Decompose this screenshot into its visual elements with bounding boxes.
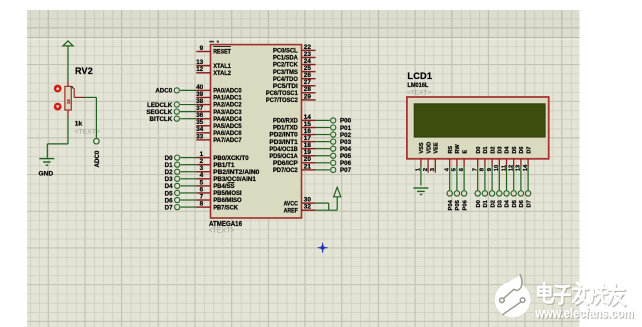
terminal P06 [461,191,468,211]
svg-text:www.elecfans.com: www.elecfans.com [535,306,634,321]
U1 pin 15 (PD1/TXD) [273,121,316,132]
svg-text:PA5/ADC5: PA5/ADC5 [213,123,242,130]
svg-text:D6: D6 [519,199,525,207]
svg-text:2: 2 [423,168,429,171]
svg-text:GND: GND [39,171,54,178]
LCD1 <TEXT> placeholder [407,90,432,97]
RV2 reference label [75,66,93,76]
svg-text:PD2/INT0: PD2/INT0 [269,132,298,139]
svg-text:32: 32 [304,204,312,211]
LCD1 body [407,97,549,159]
U1 pin 25 (PC3/TMS) [273,65,316,76]
LCD1 screen [414,104,545,137]
svg-text:40: 40 [196,84,204,91]
svg-text:33: 33 [196,133,204,140]
terminal D3 [165,176,180,183]
wire U1 pin 37 to terminal SEGCLK [180,111,196,113]
LCD1 pin 4 (RS) [445,146,454,172]
svg-text:BITCLK: BITCLK [150,116,173,123]
svg-text:D6: D6 [165,197,173,204]
terminal BITCLK [150,116,180,123]
terminal D5 [511,191,518,208]
LCD1 pin 12 (D5) [509,146,518,171]
svg-text:38: 38 [196,98,204,105]
svg-text:D7: D7 [526,146,532,153]
LCD1 pin 6 (E) [459,150,468,172]
svg-text:PC5/TDI: PC5/TDI [273,83,298,90]
wire U1 pin 38 to terminal LEDCLK [180,104,196,106]
svg-text:34: 34 [196,126,204,133]
U1 pin 29 (PC7/TOSC2) [266,93,316,104]
svg-text:39: 39 [196,91,204,98]
svg-text:P03: P03 [340,139,352,146]
wire AREF to power rail [316,209,338,211]
wire U1 pin 20 to terminal P06 [316,162,330,164]
svg-text:8: 8 [200,200,204,207]
U1 pin 24 (PC2/TCK) [273,58,316,69]
terminal D0 [475,191,482,208]
wire U1 pin 15 to terminal P01 [316,126,330,128]
svg-text:P05: P05 [455,199,461,210]
svg-text:<TEXT>: <TEXT> [407,90,432,97]
power symbol (AVCC/AREF) [334,187,341,210]
wire LCD1 D1 to terminal D1 [484,167,486,191]
svg-text:4: 4 [200,172,204,179]
svg-text:PC0/SCL: PC0/SCL [273,48,298,55]
svg-text:PB2/INT2/AIN0: PB2/INT2/AIN0 [213,169,260,176]
U1 pin 2 (PB1/T1) [196,158,235,169]
U1 pin 17 (PD3/INT1) [269,135,315,146]
LCD1 pin 14 (D7) [523,146,532,171]
U1 pin 8 (PB7/SCK) [196,200,238,211]
svg-text:1: 1 [200,151,204,158]
terminal P06 [331,160,352,167]
svg-text:16: 16 [66,99,71,104]
U1 pin 30 (AVCC) [284,197,316,208]
U1 part number ATMEGA16 [209,221,242,228]
ground GND (LCD VSS) [413,188,428,195]
svg-text:30: 30 [304,197,312,204]
svg-text:12: 12 [196,66,204,73]
svg-text:3: 3 [200,165,204,172]
svg-text:PC1/SDA: PC1/SDA [273,55,298,62]
svg-text:7: 7 [200,193,204,200]
svg-text:D0: D0 [476,146,482,153]
svg-text:16: 16 [304,128,312,135]
U1 pin 21 (PD7/OC2) [273,163,316,174]
svg-text:PC7/TOSC2: PC7/TOSC2 [266,97,298,104]
svg-text:P04: P04 [340,146,352,153]
U1 pin 23 (PC1/SDA) [273,51,316,62]
svg-text:1k: 1k [75,121,83,128]
svg-text:LM016L: LM016L [407,82,428,89]
wire RV2 bottom to ground [47,117,68,158]
terminal D1 [165,162,180,169]
svg-text:<TEXT>: <TEXT> [208,228,234,235]
U1 pin 34 (PA6/ADC6) [196,126,242,137]
watermark logo (elecfans) [494,274,530,318]
potentiometer RV2 [65,81,84,118]
wire LCD1 D2 to terminal D2 [491,167,493,191]
LCD1 reference label [407,71,432,81]
svg-text:D7: D7 [526,200,532,207]
svg-text:PA2/ADC2: PA2/ADC2 [213,102,242,109]
terminal D7 [165,204,180,211]
U1 pin 40 (PA0/ADC0) [196,84,242,95]
svg-text:P06: P06 [340,160,352,167]
svg-text:27: 27 [304,79,312,86]
svg-text:25: 25 [304,65,312,72]
U1 pin 28 (PC6/TOSC1) [266,86,316,97]
terminal D3 [497,191,504,208]
wire U1 pin 40 to terminal ADC0 [180,89,196,91]
watermark text (Chinese brand, drawn as strokes) [538,283,625,306]
terminal P04 [331,146,352,153]
terminal D0 [165,155,180,162]
U1 pin 35 (PA5/ADC5) [196,119,242,130]
U1 pin 5 (PB4/SS) [196,179,235,190]
svg-text:VSS: VSS [419,142,425,153]
U1 pin 16 (PD2/INT0) [269,128,315,139]
origin marker (blue cross) [318,243,328,253]
U1 pin 9 (RESET) [196,45,231,56]
U1 pin 6 (PB5/MOSI) [196,186,242,197]
terminal P05 [331,153,352,160]
U1 <TEXT> placeholder [208,228,234,235]
wire U1 pin 7 to terminal D6 [181,199,197,201]
RV2 <TEXT> placeholder [75,129,100,136]
svg-text:AVCC: AVCC [284,200,299,207]
svg-text:D4: D4 [505,146,511,154]
svg-text:PD1/TXD: PD1/TXD [273,125,298,132]
wire U1 pin 17 to terminal P03 [316,141,330,143]
U1 pin 37 (PA3/ADC3) [196,105,242,116]
svg-text:LCD1: LCD1 [407,71,432,81]
svg-text:2: 2 [200,158,204,165]
U1 pin 32 (AREF) [284,204,316,215]
U1 pin 12 (XTAL2) [196,66,231,77]
U1 pin 20 (PD6/ICP) [273,156,316,167]
svg-text:29: 29 [304,93,312,100]
terminal D2 [165,169,180,176]
svg-text:VEE: VEE [434,142,440,153]
svg-text:D6: D6 [519,146,525,153]
svg-text:15: 15 [304,121,312,128]
terminal P04 [447,191,454,211]
svg-text:PB7/SCK: PB7/SCK [213,204,238,211]
svg-text:E: E [462,150,468,154]
svg-text:PD6/ICP: PD6/ICP [273,160,299,167]
svg-text:D3: D3 [498,199,504,207]
svg-text:PA4/ADC4: PA4/ADC4 [213,116,242,123]
U1 reference marks above chip [209,41,219,43]
wire U1 pin 19 to terminal P05 [316,155,330,157]
terminal D4 [504,191,511,208]
svg-text:19: 19 [304,149,312,156]
svg-text:D5: D5 [512,199,518,207]
terminal D2 [489,191,496,208]
svg-text:21: 21 [304,163,312,170]
U1 pin 13 (XTAL1) [196,59,231,70]
svg-text:D2: D2 [490,146,496,153]
LCD1 pin 9 (D2) [487,146,496,171]
power symbol (top of RV2) [63,41,73,46]
terminal P05 [454,191,461,211]
terminal D5 [165,190,180,197]
wire U1 pin 36 to terminal BITCLK [180,118,196,120]
LCD1 pin 7 (D0) [473,146,482,171]
svg-text:AREF: AREF [284,207,298,214]
terminal P01 [331,125,352,132]
svg-text:PB1/T1: PB1/T1 [213,162,235,169]
svg-text:PA1/ADC1: PA1/ADC1 [213,95,242,102]
LCD1 pin 3 (VEE) [430,142,439,173]
svg-text:37: 37 [196,105,204,112]
svg-text:D1: D1 [483,199,489,207]
svg-text:SEGCLK: SEGCLK [146,109,172,116]
wire U1 pin 6 to terminal D5 [181,192,197,194]
svg-text:D5: D5 [165,190,173,197]
svg-text:PA7/ADC7: PA7/ADC7 [213,137,242,144]
svg-text:P05: P05 [340,153,352,160]
svg-text:D3: D3 [165,176,173,183]
wire LCD1 RW to terminal P05 [456,167,458,191]
wire U1 pin 2 to terminal D1 [181,164,197,166]
wire RV2 wiper to ADC0 terminal [84,97,96,137]
terminal D6 [518,191,525,208]
LCD1 pin 8 (D1) [480,146,489,171]
svg-text:P07: P07 [340,167,352,174]
U1 pin 27 (PC5/TDI) [273,79,316,90]
svg-text:PB0/XCK/T0: PB0/XCK/T0 [213,155,249,162]
wire U1 pin 14 to terminal P00 [316,119,330,121]
wire LCD1 E to terminal P06 [463,167,465,191]
wire U1 pin 1 to terminal D0 [181,157,197,159]
svg-text:D3: D3 [498,146,504,153]
svg-text:ADC0: ADC0 [155,88,172,95]
svg-text:35: 35 [196,119,204,126]
svg-text:PD0/RXD: PD0/RXD [273,118,298,125]
U1 pin 19 (PD5/OC1A) [269,149,315,160]
svg-text:PB6/MISO: PB6/MISO [213,197,241,204]
svg-text:D4: D4 [165,183,173,190]
U1 pin 38 (PA2/ADC2) [196,98,242,109]
svg-text:PB3/OC0/AIN1: PB3/OC0/AIN1 [213,176,256,183]
terminal SEGCLK [146,109,179,116]
svg-text:D2: D2 [165,169,173,176]
svg-text:PA6/ADC6: PA6/ADC6 [213,130,242,137]
svg-text:VDD: VDD [426,142,432,154]
svg-text:22: 22 [304,44,312,51]
U1 pin 14 (PD0/RXD) [273,114,316,125]
svg-text:PD4/OC1B: PD4/OC1B [269,146,298,153]
svg-text:13: 13 [196,59,204,66]
U1 pin 26 (PC4/TDO) [273,72,316,83]
U1 pin 33 (PA7/ADC7) [196,133,242,144]
svg-text:PC3/TMS: PC3/TMS [273,69,299,76]
U1 pin 1 (PB0/XCK/T0) [196,151,249,162]
svg-text:ADC0: ADC0 [94,150,101,167]
U1 pin 39 (PA1/ADC1) [196,91,242,102]
svg-text:RESET: RESET [213,49,231,56]
terminal ADC0 [155,88,179,95]
svg-text:PD5/OC1A: PD5/OC1A [269,153,298,160]
LCD1 pin 11 (D4) [501,146,510,172]
terminal D7 [525,191,532,208]
svg-text:RW: RW [455,144,461,154]
terminal P07 [331,167,352,174]
RV2 value 1k [75,121,83,128]
U1 pin 18 (PD4/OC1B) [269,142,315,153]
svg-text:P01: P01 [340,125,352,132]
svg-text:RS: RS [448,146,454,154]
svg-text:LEDCLK: LEDCLK [147,102,173,109]
svg-text:XTAL2: XTAL2 [213,70,231,77]
wire U1 pin 3 to terminal D2 [181,171,197,173]
LCD1 part number LM016L [407,82,428,89]
svg-text:D0: D0 [476,200,482,207]
svg-text:36: 36 [196,112,204,119]
svg-text:XTAL1: XTAL1 [213,63,231,70]
svg-text:PC6/TOSC1: PC6/TOSC1 [266,90,298,97]
wire LCD1 D4 to terminal D4 [506,167,508,191]
wire LCD1 D0 to terminal D0 [477,167,479,191]
wire LCD1 VSS to ground [420,167,422,186]
svg-text:PD3/INT1: PD3/INT1 [269,139,298,146]
wire LCD1 D7 to terminal D7 [527,167,529,191]
svg-text:P02: P02 [340,132,352,139]
svg-text:P06: P06 [462,199,468,210]
LCD1 pin 10 (D3) [494,146,503,171]
wire U1 pin 16 to terminal P02 [316,134,330,136]
RV2 interactive buttons [54,85,62,111]
wire LCD1 RS to terminal P04 [449,167,451,191]
LCD1 pin 2 (VDD) [423,142,432,173]
svg-text:PB5/MOSI: PB5/MOSI [213,190,242,197]
svg-text:28: 28 [304,86,312,93]
wire LCD1 D6 to terminal D6 [520,167,522,191]
svg-text:9: 9 [200,45,204,52]
U1 pin 22 (PC0/SCL) [273,44,316,55]
svg-text:PA0/ADC0: PA0/ADC0 [213,88,242,95]
terminal LEDCLK [147,102,179,109]
svg-text:PC2/TCK: PC2/TCK [273,62,298,69]
svg-text:P00: P00 [340,118,352,125]
U1 pin 4 (PB3/OC0/AIN1) [196,172,256,183]
svg-text:RV2: RV2 [75,66,93,76]
IC U1 ATMEGA16 body [211,45,302,218]
svg-text:PA3/ADC3: PA3/ADC3 [213,109,242,116]
wire U1 pin 8 to terminal D7 [181,206,197,208]
svg-text:17: 17 [304,135,312,142]
terminal D6 [165,197,180,204]
svg-text:D5: D5 [512,146,518,153]
svg-text:14: 14 [304,114,312,121]
wire LCD1 D3 to terminal D3 [498,167,500,191]
wire U1 pin 5 to terminal D4 [181,185,197,187]
wire U1 pin 4 to terminal D3 [181,178,197,180]
svg-text:26: 26 [304,72,312,79]
terminal P03 [331,139,352,146]
svg-text:D7: D7 [165,204,173,211]
LCD1 pin 1 (VSS) [416,142,425,171]
U1 pin 7 (PB6/MISO) [196,193,241,204]
svg-text:P04: P04 [448,199,454,210]
wire U1 pin 21 to terminal P07 [316,169,330,171]
terminal ADC0 (pot wiper net) [94,138,101,167]
LCD1 pin 5 (RW) [452,144,461,172]
svg-text:24: 24 [304,58,312,65]
svg-text:18: 18 [304,142,312,149]
svg-text:PC4/TDO: PC4/TDO [273,76,298,83]
terminal D1 [482,191,489,208]
svg-text:D2: D2 [490,200,496,207]
svg-text:PB4/SS: PB4/SS [213,183,235,190]
ground GND (left) [39,159,55,178]
terminal P00 [331,118,352,125]
U1 pin 36 (PA4/ADC4) [196,112,242,123]
svg-text:5: 5 [200,179,204,186]
terminal P02 [331,132,352,139]
wire power to RV2 top [67,47,69,81]
terminal D4 [165,183,180,190]
svg-text:D4: D4 [505,199,511,207]
svg-text:D0: D0 [165,155,173,162]
svg-text:D1: D1 [483,146,489,153]
wire U1 pin 18 to terminal P04 [316,148,330,150]
watermark text www.elecfans.com [535,306,635,322]
svg-text:23: 23 [304,51,312,58]
LCD1 pin 13 (D6) [516,146,525,171]
svg-text:PD7/OC2: PD7/OC2 [273,167,298,174]
U1 pin 3 (PB2/INT2/AIN0) [196,165,259,176]
svg-text:D1: D1 [165,162,173,169]
svg-text:6: 6 [200,186,204,193]
wire AVCC to power rail [316,203,329,210]
svg-text:20: 20 [304,156,312,163]
wire LCD1 D5 to terminal D5 [513,167,515,191]
